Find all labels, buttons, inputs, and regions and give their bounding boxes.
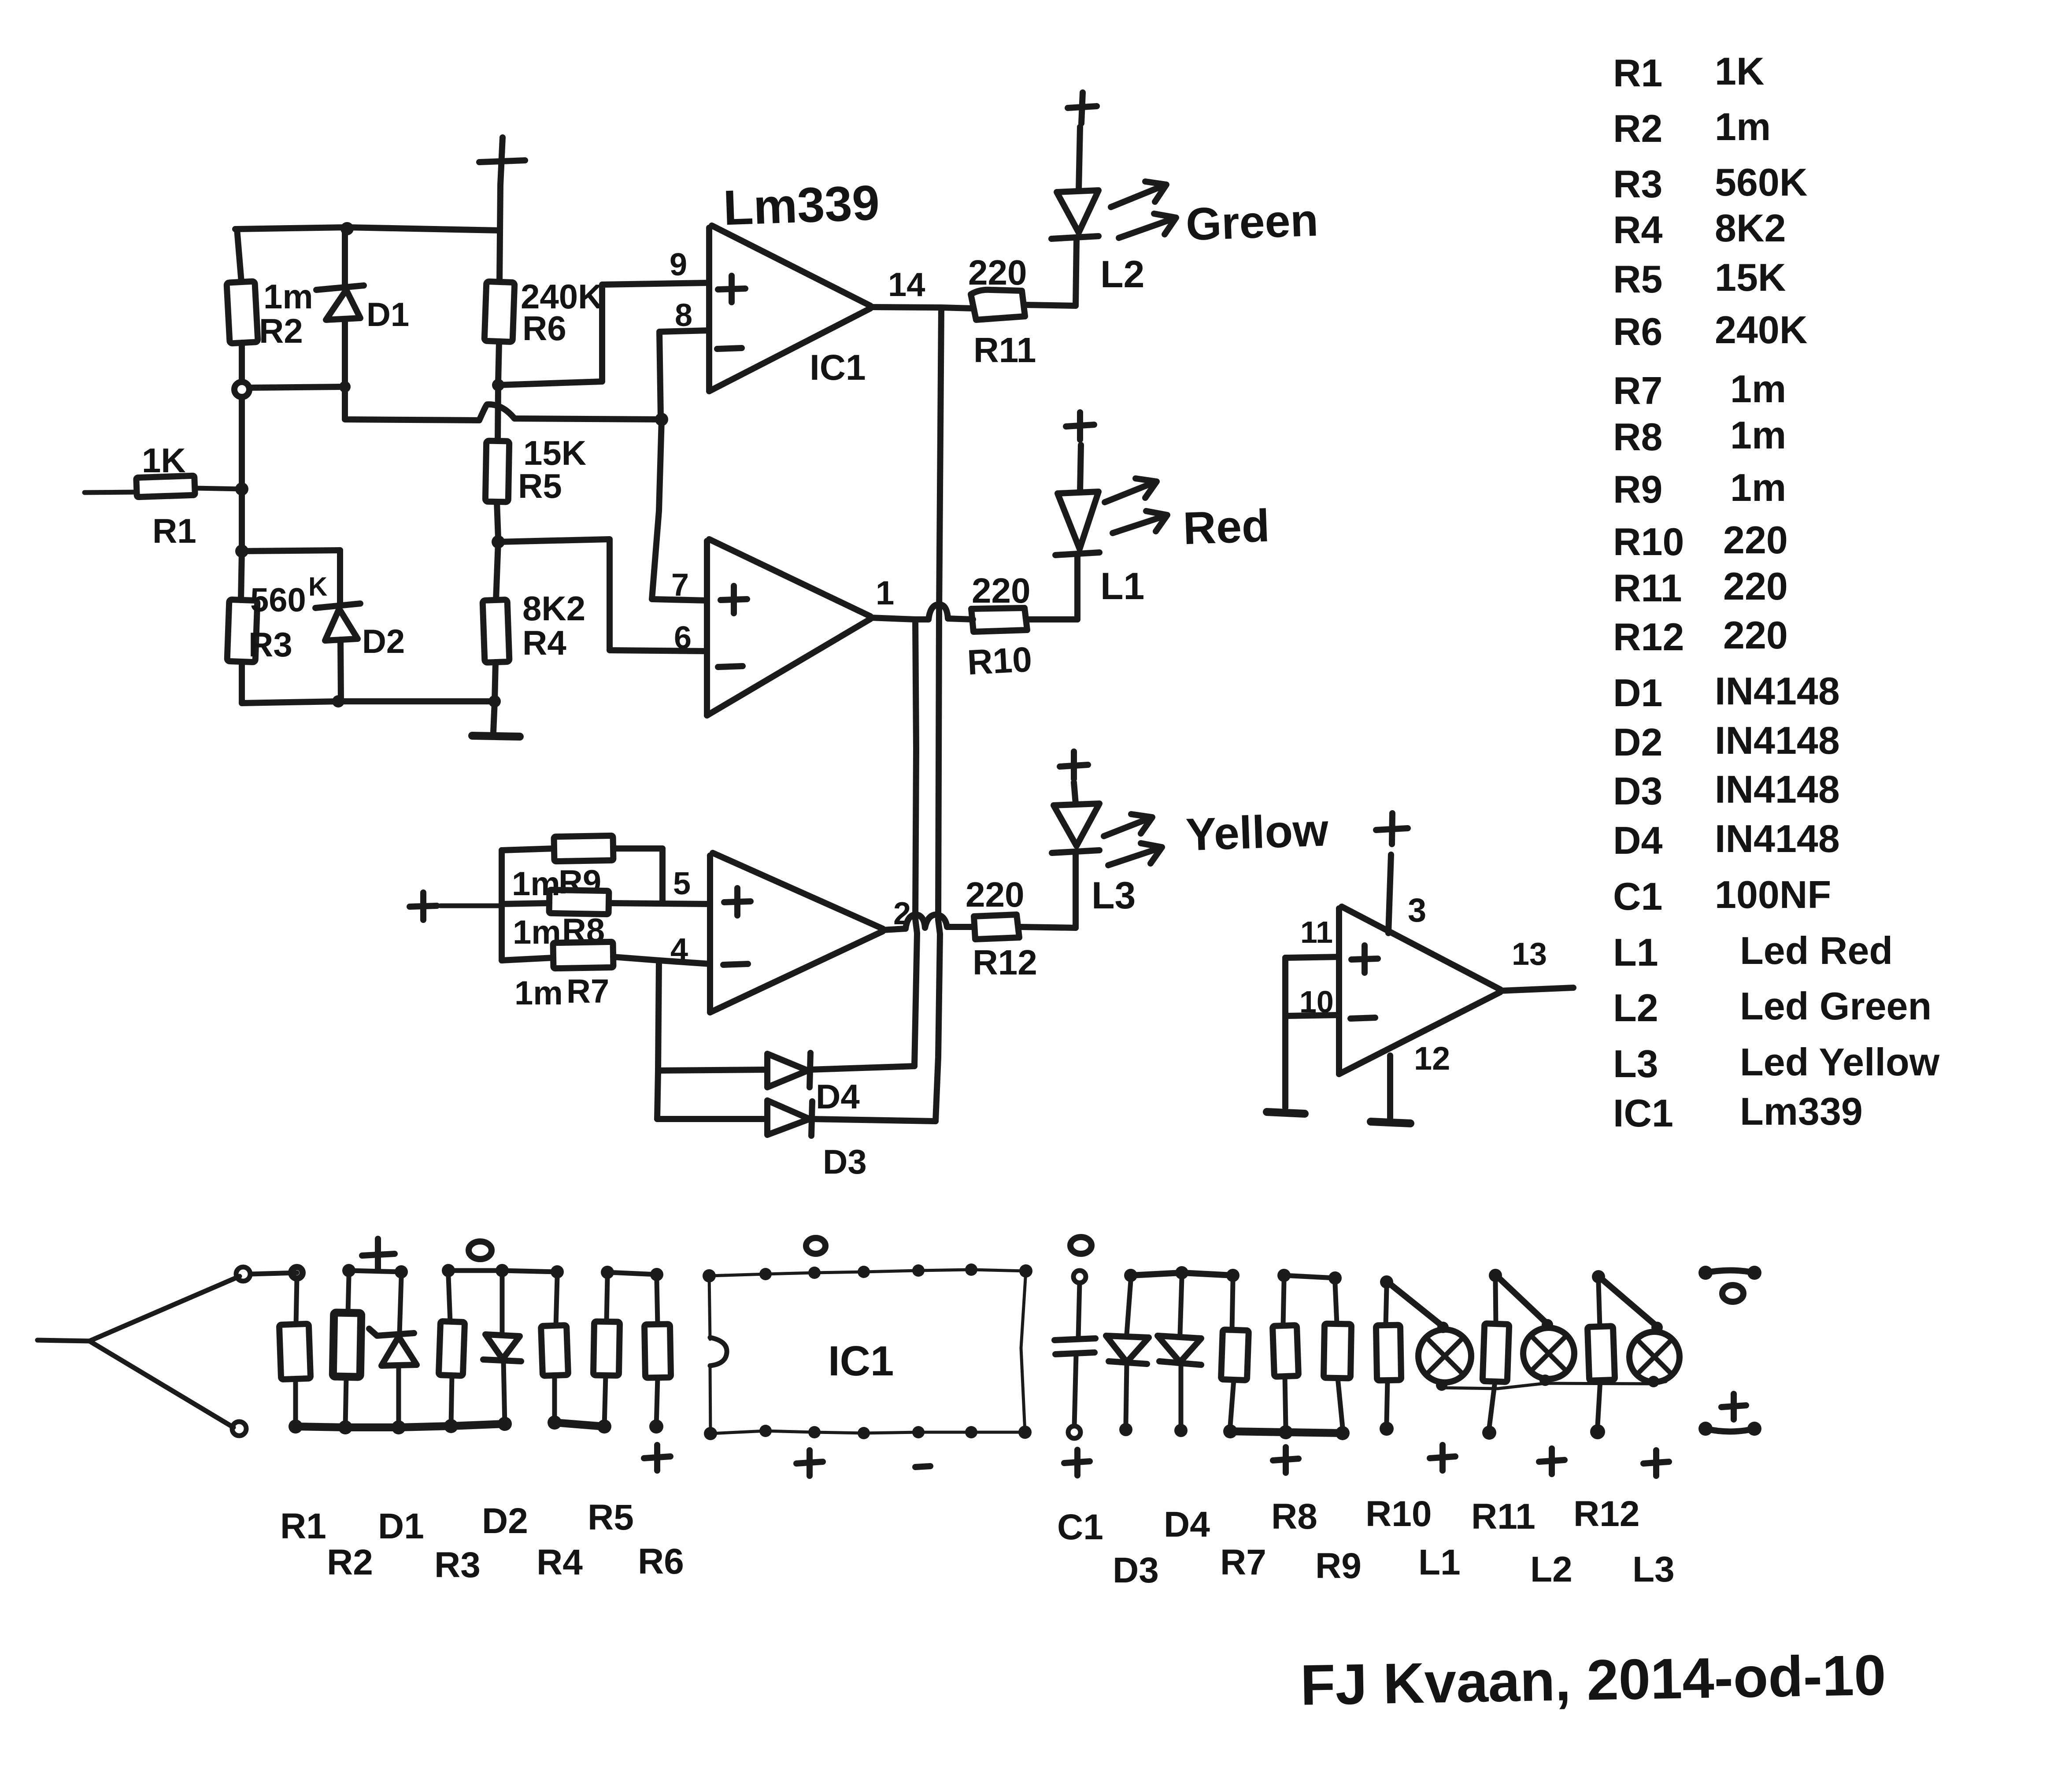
wire board top rail R2-D1 bbox=[349, 1271, 401, 1272]
board pad D2 bottom bbox=[498, 1417, 512, 1431]
resistor R9 bbox=[502, 836, 662, 903]
svg-text:IN4148: IN4148 bbox=[1715, 669, 1840, 713]
wire R12 pad to L3 top bbox=[1602, 1279, 1657, 1326]
board pad R7 top bbox=[1226, 1269, 1239, 1282]
board resistor R2 bbox=[333, 1277, 362, 1426]
plus above L2 bbox=[1068, 93, 1097, 123]
LED L1 bbox=[1055, 445, 1099, 619]
node junction input net bbox=[655, 413, 668, 426]
plus input IC1a bbox=[718, 276, 745, 302]
board pad R9 bottom bbox=[1336, 1426, 1350, 1440]
board LED L3 bbox=[1629, 1322, 1680, 1387]
wire output pin14 bbox=[870, 307, 973, 308]
svg-text:220: 220 bbox=[966, 875, 1024, 914]
wire top rail bbox=[235, 227, 499, 230]
svg-text:9: 9 bbox=[670, 247, 687, 282]
svg-text:1m: 1m bbox=[1730, 413, 1786, 457]
svg-text:D2: D2 bbox=[482, 1501, 528, 1541]
svg-text:C1: C1 bbox=[1613, 874, 1663, 918]
svg-text:L2: L2 bbox=[1100, 253, 1144, 296]
board pad D4 bottom bbox=[1174, 1424, 1188, 1437]
svg-text:1m: 1m bbox=[263, 277, 313, 316]
svg-text:Red: Red bbox=[1182, 500, 1270, 554]
svg-text:D2: D2 bbox=[362, 623, 405, 660]
board pad R6 bottom bbox=[649, 1419, 663, 1434]
svg-text:220: 220 bbox=[1723, 564, 1788, 608]
board resistor R5 bbox=[593, 1278, 620, 1426]
svg-text:220: 220 bbox=[968, 253, 1027, 292]
op-amp IC1c (pins 5,4,2) bbox=[710, 853, 883, 1012]
board pad R11 bottom bbox=[1482, 1426, 1496, 1440]
plus above L1 bbox=[1066, 412, 1094, 440]
ground (pin 12) bbox=[1371, 1122, 1410, 1123]
node junction top rail / D1 bbox=[340, 222, 354, 235]
minus input IC1b bbox=[718, 666, 743, 667]
svg-text:IC1: IC1 bbox=[828, 1338, 894, 1385]
node junction bottom rail / D2 bbox=[332, 695, 344, 708]
wire output pin1 (hop over bus) bbox=[870, 604, 973, 619]
plus below R6 pad bbox=[644, 1445, 670, 1471]
svg-text:R3: R3 bbox=[1613, 162, 1663, 206]
board pad R3 top bbox=[442, 1264, 455, 1277]
svg-text:11: 11 bbox=[1300, 915, 1333, 949]
svg-text:Lm339: Lm339 bbox=[722, 175, 881, 235]
svg-text:R6: R6 bbox=[638, 1541, 684, 1582]
board output header bottom pads bbox=[1698, 1422, 1761, 1436]
board resistor R8 bbox=[1273, 1281, 1299, 1426]
svg-text:R4: R4 bbox=[536, 1542, 583, 1582]
svg-text:R1: R1 bbox=[1613, 51, 1663, 95]
board resistor R9 bbox=[1324, 1284, 1351, 1427]
svg-text:12: 12 bbox=[1414, 1040, 1450, 1077]
svg-text:14: 14 bbox=[888, 266, 925, 304]
board resistor R1 bbox=[279, 1278, 311, 1426]
plus below L3 bbox=[1643, 1450, 1669, 1476]
svg-text:L3: L3 bbox=[1613, 1042, 1658, 1086]
resistor R3 bbox=[227, 551, 258, 703]
wire pin4 node down to D4/D3 anodes bbox=[657, 960, 659, 1119]
resistor R6 bbox=[485, 282, 515, 382]
resistor R4 bbox=[483, 542, 510, 701]
svg-text:IN4148: IN4148 bbox=[1715, 719, 1840, 762]
svg-text:3: 3 bbox=[1408, 892, 1426, 929]
wire bus from pin1 (to D4) bbox=[914, 619, 917, 1066]
svg-text:Led Green: Led Green bbox=[1740, 984, 1931, 1028]
plus above rail (R2/D1) bbox=[362, 1239, 395, 1270]
wire output pin2 (hops over buses) bbox=[883, 915, 974, 930]
svg-text:L1: L1 bbox=[1418, 1542, 1461, 1582]
svg-text:R2: R2 bbox=[327, 1542, 373, 1582]
board resistor R4 bbox=[541, 1278, 568, 1423]
parts list bbox=[1613, 49, 1940, 1135]
svg-text:IN4148: IN4148 bbox=[1715, 817, 1840, 860]
board pad R4 top bbox=[551, 1265, 564, 1278]
plus header bbox=[1721, 1394, 1746, 1419]
wire board bottom rail R7-R8-R9 bbox=[1230, 1431, 1343, 1433]
svg-text:Yellow: Yellow bbox=[1185, 804, 1330, 860]
svg-text:Lm339: Lm339 bbox=[1740, 1089, 1863, 1133]
LED L2 bbox=[1051, 127, 1099, 306]
wire pin 3 bbox=[1388, 855, 1391, 933]
IC1 board pads top bbox=[703, 1263, 1032, 1282]
plus input source for R8/R9 bbox=[410, 893, 437, 920]
diode D1 bbox=[316, 229, 364, 384]
resistor R8 bbox=[502, 890, 710, 914]
arrows L1 bbox=[1105, 478, 1167, 533]
board pad D2 top bbox=[496, 1264, 509, 1277]
svg-text:D1: D1 bbox=[1613, 671, 1663, 715]
svg-text:K: K bbox=[308, 572, 327, 601]
board resistor R6 bbox=[644, 1280, 671, 1426]
board resistor R10 bbox=[1376, 1288, 1401, 1423]
svg-text:1m: 1m bbox=[1730, 367, 1786, 411]
zero marker above C1 bbox=[1070, 1237, 1091, 1254]
ground (pin 11/10) bbox=[1267, 1112, 1305, 1114]
svg-text:D3: D3 bbox=[1113, 1550, 1159, 1590]
wire output pin 13 bbox=[1500, 988, 1573, 991]
plus below C1 bbox=[1064, 1450, 1090, 1475]
svg-text:D4: D4 bbox=[1613, 819, 1663, 862]
plus input IC1b bbox=[721, 586, 747, 613]
minus below IC1 bbox=[915, 1466, 930, 1467]
wire node to D1 bottom bbox=[249, 387, 340, 388]
minus input IC1c bbox=[723, 964, 748, 965]
LED L3 bbox=[1052, 782, 1099, 928]
svg-text:R7: R7 bbox=[1613, 369, 1663, 412]
plus below R8 bbox=[1273, 1447, 1299, 1473]
plus below L2 bbox=[1539, 1449, 1565, 1474]
svg-text:560K: 560K bbox=[1715, 160, 1807, 204]
svg-text:R2: R2 bbox=[259, 311, 303, 350]
board diode D2 bbox=[483, 1276, 521, 1424]
zero marker header bbox=[1722, 1285, 1743, 1302]
wire left rail R9-R7 bbox=[499, 850, 505, 960]
svg-text:IN4148: IN4148 bbox=[1715, 767, 1840, 811]
wire input net to comparators (with hop) bbox=[345, 387, 662, 420]
svg-text:IC1: IC1 bbox=[1613, 1091, 1673, 1135]
board pad R8 top bbox=[1277, 1269, 1291, 1282]
svg-text:L3: L3 bbox=[1632, 1549, 1675, 1589]
svg-text:13: 13 bbox=[1512, 937, 1547, 972]
board resistor R7 bbox=[1221, 1281, 1249, 1426]
plus input IC1c bbox=[724, 888, 751, 915]
board diode D1 bbox=[369, 1278, 417, 1426]
board pad D3 top bbox=[1124, 1269, 1137, 1282]
svg-text:L2: L2 bbox=[1530, 1549, 1572, 1589]
svg-text:R7: R7 bbox=[566, 973, 609, 1010]
board diode D3 bbox=[1106, 1281, 1149, 1424]
resistor R12 bbox=[974, 915, 1076, 939]
op-amp IC1b (pins 7,6,1) bbox=[707, 539, 870, 715]
svg-text:C1: C1 bbox=[1057, 1507, 1103, 1547]
wire board rail D3-D4-R7 bbox=[1131, 1273, 1233, 1275]
zero marker above rail bbox=[469, 1241, 492, 1259]
svg-text:D2: D2 bbox=[1613, 720, 1663, 764]
board output header top pads bbox=[1698, 1266, 1761, 1280]
board resistor R11 bbox=[1483, 1281, 1510, 1427]
svg-text:Led Yellow: Led Yellow bbox=[1740, 1040, 1940, 1084]
board LED L2 bbox=[1523, 1319, 1574, 1386]
resistor R7 bbox=[502, 942, 710, 968]
svg-text:1m: 1m bbox=[512, 865, 560, 903]
minus input IC1a bbox=[717, 348, 742, 349]
board diode D4 bbox=[1158, 1278, 1201, 1425]
board pad R5 top bbox=[601, 1266, 614, 1279]
svg-text:240K: 240K bbox=[1715, 308, 1807, 352]
board pad R8 bottom bbox=[1279, 1425, 1293, 1439]
wire board bottom rail (gnd segment) bbox=[296, 1424, 505, 1427]
svg-text:R5: R5 bbox=[518, 467, 562, 505]
minus input IC1d bbox=[1350, 1018, 1375, 1019]
node junction input / R1 bbox=[235, 482, 248, 496]
wire node to D2 top bbox=[242, 550, 340, 551]
svg-text:D1: D1 bbox=[366, 296, 409, 333]
svg-text:8K2: 8K2 bbox=[1715, 206, 1786, 250]
plus power pin 3 bbox=[1376, 813, 1408, 844]
board pad D3 bottom bbox=[1119, 1423, 1132, 1436]
board pad R9 top bbox=[1328, 1271, 1342, 1285]
svg-text:R11: R11 bbox=[1471, 1497, 1535, 1537]
svg-text:R4: R4 bbox=[1613, 208, 1663, 252]
svg-text:R5: R5 bbox=[1613, 257, 1663, 301]
resistor R11 bbox=[971, 290, 1076, 320]
svg-text:R12: R12 bbox=[973, 943, 1037, 982]
svg-text:R2: R2 bbox=[1613, 107, 1663, 150]
board pad R11 top bbox=[1489, 1269, 1502, 1282]
diode D2 bbox=[315, 550, 360, 701]
svg-text:R8: R8 bbox=[1271, 1497, 1317, 1537]
board input pad bottom (open) bbox=[232, 1422, 246, 1436]
svg-text:220: 220 bbox=[1723, 518, 1788, 562]
svg-text:1m: 1m bbox=[1715, 105, 1771, 148]
board pad R10 top bbox=[1380, 1275, 1393, 1289]
board pad R3 bottom bbox=[444, 1419, 458, 1433]
svg-text:Green: Green bbox=[1185, 195, 1319, 250]
resistor R5 bbox=[485, 385, 509, 538]
board pad R2 bottom bbox=[338, 1420, 352, 1434]
svg-text:8K2: 8K2 bbox=[522, 589, 585, 628]
svg-text:L2: L2 bbox=[1613, 986, 1658, 1030]
svg-text:R1: R1 bbox=[152, 511, 196, 550]
svg-text:R11: R11 bbox=[973, 330, 1036, 370]
board pad D4 top bbox=[1175, 1266, 1188, 1279]
svg-text:5: 5 bbox=[673, 866, 691, 901]
op-amp IC1a (pins 9,8,14) bbox=[709, 226, 870, 391]
board resistor R12 bbox=[1587, 1282, 1615, 1426]
wire bus from pin14 (to D3) bbox=[936, 308, 941, 1121]
wire pins 11/10 to ground bbox=[1282, 958, 1288, 1108]
wire + to R7/R8/R9 left rail bbox=[440, 904, 502, 908]
wire pin 8 bbox=[659, 330, 709, 418]
resistor R1 bbox=[85, 476, 242, 497]
board LED L1 bbox=[1418, 1322, 1471, 1391]
board pad R1 top bbox=[291, 1267, 303, 1278]
svg-text:220: 220 bbox=[1723, 613, 1788, 657]
wire board bottom rail (R4-R5) bbox=[555, 1423, 604, 1426]
svg-text:R9: R9 bbox=[1315, 1546, 1362, 1586]
svg-text:D4: D4 bbox=[816, 1077, 860, 1116]
svg-text:R10: R10 bbox=[966, 640, 1033, 682]
wire bottom rail bbox=[242, 701, 495, 703]
svg-text:8: 8 bbox=[675, 298, 692, 333]
svg-text:L1: L1 bbox=[1100, 565, 1144, 608]
node open circle (R2 bottom / input) bbox=[234, 382, 249, 397]
wire board top rail R5-R6 bbox=[607, 1272, 657, 1275]
board pad R12 bottom bbox=[1590, 1424, 1605, 1439]
plus below L1 bbox=[1430, 1445, 1455, 1471]
svg-text:R10: R10 bbox=[1365, 1494, 1432, 1534]
wire board top rail R3-D2-R4 bbox=[448, 1271, 557, 1272]
wire board top rail input-R1 bbox=[250, 1273, 297, 1274]
power + symbol top bbox=[479, 137, 525, 185]
wire R10 pad to L1 top bbox=[1390, 1284, 1443, 1326]
svg-text:R8: R8 bbox=[1613, 415, 1663, 459]
wire R11 pad to L2 top bbox=[1498, 1278, 1547, 1324]
wire pin 11 bbox=[1285, 957, 1339, 958]
board resistor R3 bbox=[439, 1276, 465, 1425]
svg-text:R11: R11 bbox=[1613, 566, 1682, 610]
arrows L2 bbox=[1111, 182, 1176, 238]
plus input IC1d bbox=[1351, 945, 1378, 973]
node junction R6/R5 bbox=[492, 379, 504, 391]
board pad D1 top bbox=[395, 1265, 408, 1278]
wire R5 bottom to pin 6 bbox=[498, 539, 707, 651]
wire R6 bottom to pin 9 bbox=[498, 283, 709, 385]
svg-text:R10: R10 bbox=[1613, 520, 1684, 563]
svg-text:D1: D1 bbox=[378, 1506, 424, 1546]
board pad R1 bottom bbox=[289, 1419, 303, 1434]
resistor R10 bbox=[971, 608, 1077, 632]
diode D3 bbox=[657, 1100, 936, 1136]
board pad R2 top bbox=[342, 1264, 355, 1277]
svg-text:R12: R12 bbox=[1613, 615, 1684, 659]
board pad R10 bottom bbox=[1380, 1422, 1394, 1436]
IC1 board outline bbox=[709, 1270, 1026, 1434]
svg-text:R3: R3 bbox=[248, 625, 292, 664]
wire pin 12 bbox=[1387, 1056, 1393, 1118]
zero marker above IC1 bbox=[806, 1238, 825, 1254]
board pad R5 bottom bbox=[597, 1419, 611, 1434]
plus above L3 bbox=[1060, 752, 1088, 779]
svg-text:L3: L3 bbox=[1091, 874, 1136, 917]
svg-text:R12: R12 bbox=[1573, 1494, 1639, 1534]
svg-text:FJ Kvaan, 2014-od-10: FJ Kvaan, 2014-od-10 bbox=[1300, 1643, 1887, 1717]
resistor R2 bbox=[226, 229, 258, 382]
board labels row 1 bbox=[280, 1494, 1639, 1547]
svg-text:R9: R9 bbox=[1613, 467, 1663, 511]
node junction R3 top bbox=[235, 545, 248, 558]
svg-text:L1: L1 bbox=[1613, 930, 1658, 974]
svg-text:R6: R6 bbox=[1613, 310, 1663, 353]
svg-text:Led Red: Led Red bbox=[1740, 929, 1893, 972]
svg-text:1K: 1K bbox=[142, 441, 186, 480]
svg-text:1m: 1m bbox=[1730, 466, 1786, 509]
svg-text:R3: R3 bbox=[434, 1545, 481, 1585]
board labels row 2 bbox=[327, 1541, 1675, 1590]
svg-text:1m: 1m bbox=[514, 974, 563, 1012]
board pad D1 bottom bbox=[392, 1420, 406, 1434]
svg-text:1K: 1K bbox=[1715, 49, 1765, 93]
wire pin 7 bbox=[652, 419, 707, 600]
plus below IC1 bbox=[796, 1450, 823, 1476]
svg-text:D4: D4 bbox=[1164, 1504, 1210, 1545]
node junction R5/R4 bbox=[492, 535, 505, 548]
svg-text:6: 6 bbox=[674, 620, 692, 656]
svg-text:15K: 15K bbox=[1715, 256, 1786, 299]
svg-text:D3: D3 bbox=[1613, 769, 1663, 813]
board pad R12 top bbox=[1592, 1270, 1605, 1283]
wire pin 10 bbox=[1285, 1015, 1339, 1016]
wire input vertical bbox=[239, 397, 245, 551]
svg-text:R9: R9 bbox=[559, 863, 601, 901]
svg-text:D3: D3 bbox=[823, 1142, 867, 1181]
op-amp IC1d (pins 11,10,13 spare) bbox=[1339, 907, 1500, 1074]
board input pad top (open) bbox=[236, 1267, 250, 1281]
wire +V down to R6 top bbox=[499, 185, 500, 282]
svg-text:IC1: IC1 bbox=[810, 348, 866, 388]
wire board rail R8-R9 bbox=[1284, 1275, 1335, 1278]
svg-text:R1: R1 bbox=[280, 1506, 326, 1546]
svg-text:220: 220 bbox=[972, 571, 1030, 610]
svg-text:1: 1 bbox=[876, 574, 894, 612]
arrows L3 bbox=[1104, 814, 1162, 865]
node junction R4 / bottom rail bbox=[488, 695, 501, 708]
IC1 board pads bottom bbox=[704, 1425, 1032, 1440]
board pad R4 bottom bbox=[548, 1415, 562, 1430]
svg-text:560: 560 bbox=[250, 582, 306, 619]
board input probe fork bbox=[37, 1276, 240, 1427]
diode D4 bbox=[658, 1053, 914, 1087]
svg-text:100NF: 100NF bbox=[1715, 873, 1831, 916]
svg-text:R7: R7 bbox=[1220, 1542, 1266, 1582]
svg-text:R6: R6 bbox=[522, 309, 566, 348]
ground bbox=[472, 701, 520, 737]
board pad R7 bottom bbox=[1223, 1424, 1237, 1438]
board pad R6 top bbox=[650, 1268, 663, 1281]
svg-text:R5: R5 bbox=[588, 1497, 634, 1538]
node junction D1 bottom bbox=[339, 381, 351, 393]
wire LED cathode rail bbox=[1442, 1382, 1666, 1389]
svg-text:R4: R4 bbox=[522, 623, 566, 662]
capacitor C1 on board bbox=[1054, 1271, 1095, 1438]
